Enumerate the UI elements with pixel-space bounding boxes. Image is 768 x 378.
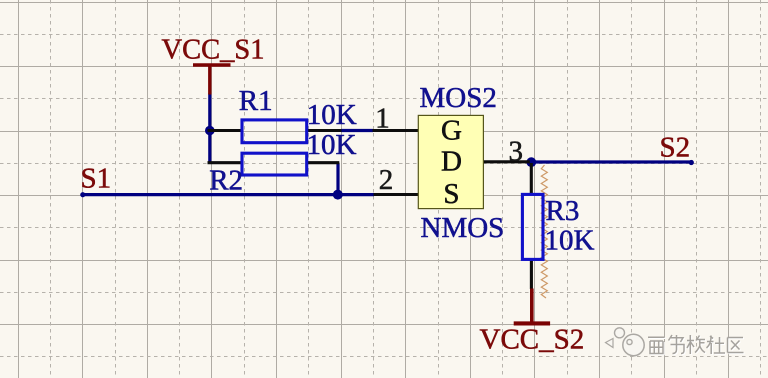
pin: R2 pin 1 (left) — [208, 161, 243, 164]
resistor R2 body — [242, 153, 307, 175]
watermark logo — [606, 328, 645, 356]
svg-text:VCC_S2: VCC_S2 — [480, 324, 585, 356]
svg-text:1: 1 — [375, 102, 390, 134]
svg-text:NMOS: NMOS — [421, 212, 505, 244]
svg-text:2: 2 — [379, 164, 394, 196]
node: S2 wire end point — [689, 160, 694, 165]
watermark text 面包板社区 — [649, 336, 745, 355]
junction: VCC wire and R1 pin — [205, 126, 215, 136]
svg-text:10K: 10K — [307, 129, 357, 161]
junction: pin 3 node and R3 — [526, 157, 536, 167]
resistor R1 body — [242, 120, 307, 143]
pin: R3 pin 2 (bottom) — [530, 259, 533, 289]
svg-text:S: S — [443, 178, 459, 210]
resistor R3 body — [522, 194, 543, 259]
svg-text:D: D — [441, 145, 462, 177]
node: S1 wire end point — [80, 192, 85, 197]
svg-text:10K: 10K — [545, 225, 595, 257]
pin: MOS2 pin 2 (S) — [374, 193, 419, 196]
wire: R1 output to MOS2 pin 1 — [341, 129, 373, 132]
svg-text:S2: S2 — [660, 132, 691, 164]
pin: R1 pin 1 (left) — [208, 129, 243, 132]
power port VCC_S2 stem — [530, 289, 534, 323]
svg-text:R1: R1 — [239, 85, 273, 117]
power port VCC_S1 stem — [208, 65, 211, 95]
power port VCC_S2 bar — [514, 321, 550, 325]
pin: R1 pin 2 (right) — [307, 129, 342, 132]
wire: VCC_S1 vertical wire down to R1/R2 pins — [208, 94, 211, 163]
pin: R2 pin 2 (right) — [307, 161, 340, 164]
svg-text:S1: S1 — [81, 162, 112, 194]
power port VCC_S1 bar — [193, 63, 231, 66]
svg-text:G: G — [441, 114, 462, 146]
junction: R2 wire and S1 net — [333, 190, 343, 200]
svg-text:MOS2: MOS2 — [420, 82, 497, 114]
svg-text:3: 3 — [508, 135, 523, 167]
wire: R2 output down to S1 net — [336, 163, 339, 195]
pin: MOS2 pin 3 (D) — [483, 160, 530, 163]
svg-text:R3: R3 — [546, 195, 580, 227]
wire: S1 net horizontal — [81, 193, 374, 196]
wire: MOS2 pin 3 to S2 net — [530, 160, 694, 163]
pin: MOS2 pin 1 (G) — [373, 129, 419, 132]
pin: R3 pin 1 (top) — [530, 163, 533, 195]
ERC marker zigzag — [541, 165, 547, 298]
svg-text:VCC_S1: VCC_S1 — [162, 35, 265, 66]
svg-text:10K: 10K — [307, 99, 357, 131]
transistor MOS2 body — [418, 115, 483, 208]
svg-text:R2: R2 — [209, 164, 243, 196]
